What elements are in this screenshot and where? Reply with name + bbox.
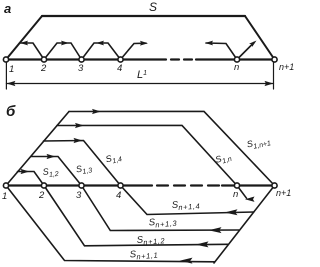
- node n+1 top: [272, 57, 277, 62]
- path Sn+1,3: [82, 186, 240, 231]
- bus baseline top section: [6, 58, 166, 60]
- path Sn+1,n short arrow: [237, 186, 247, 199]
- svg-text:3: 3: [78, 63, 84, 74]
- path S1,2: [18, 172, 45, 186]
- svg-text:n: n: [233, 189, 238, 200]
- svg-text:S: S: [149, 0, 157, 14]
- svg-text:4: 4: [116, 190, 121, 201]
- svg-text:3: 3: [76, 190, 82, 201]
- svg-text:1: 1: [9, 64, 14, 75]
- loop S left diagonal: [6, 16, 42, 60]
- right diagonal from node n+1: [214, 186, 275, 264]
- bus baseline bottom section: [6, 184, 152, 186]
- path S1,n+1: [69, 111, 275, 185]
- hop arrow from 4 rightward: [121, 43, 147, 59]
- svg-text:а: а: [4, 1, 11, 16]
- node 4 top: [118, 57, 123, 62]
- svg-text:2: 2: [40, 63, 47, 74]
- hop arrow 3-4: [82, 43, 121, 60]
- main diagonal from node 1: [6, 112, 69, 186]
- svg-text:4: 4: [117, 63, 122, 74]
- node 3 bottom: [79, 183, 84, 188]
- hop arrow into n leftward: [206, 43, 237, 60]
- path Sn+1,2: [44, 186, 228, 246]
- path Sn+1,1: [6, 186, 215, 262]
- svg-text:1: 1: [2, 191, 7, 202]
- node n bottom: [234, 183, 239, 188]
- node 4 bottom: [118, 183, 123, 188]
- svg-text:n+1: n+1: [279, 62, 294, 72]
- svg-text:n: n: [234, 62, 239, 73]
- node 2 top: [41, 57, 46, 62]
- loop S top line: [42, 15, 245, 17]
- node 1 bottom: [3, 183, 8, 188]
- node n top: [234, 57, 239, 62]
- node 3 top: [79, 57, 84, 62]
- loop S right diagonal: [245, 16, 275, 60]
- dimension line L': [6, 83, 273, 85]
- hop arrow n to n+1: [237, 43, 254, 60]
- path Sn+1,4: [121, 186, 254, 215]
- dimension tick left: [5, 62, 7, 89]
- path S1,3: [31, 157, 82, 186]
- svg-text:2: 2: [38, 190, 45, 201]
- hop arrow 2-3: [44, 43, 82, 60]
- node n+1 bottom: [272, 183, 277, 188]
- hop arrow 1-2: [20, 43, 44, 60]
- svg-text:б: б: [6, 103, 16, 120]
- path S1,4: [44, 141, 121, 186]
- path S1,n: [57, 125, 237, 185]
- node 2 bottom: [41, 183, 46, 188]
- node 1 top: [3, 57, 8, 62]
- dimension tick right: [273, 62, 275, 89]
- svg-text:n+1: n+1: [276, 188, 291, 198]
